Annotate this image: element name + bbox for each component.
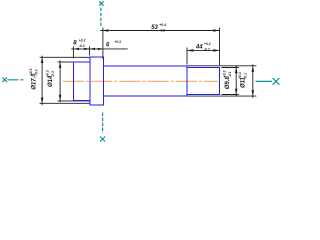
svg-text:+0.3: +0.3 — [46, 70, 50, 77]
svg-text:+0.4: +0.4 — [159, 23, 166, 27]
svg-text:+0.3: +0.3 — [29, 68, 33, 75]
svg-text:-0.2: -0.2 — [79, 44, 85, 48]
svg-text:+0.3: +0.3 — [114, 40, 121, 44]
svg-text:44: 44 — [195, 44, 203, 50]
svg-text:-0.2: -0.2 — [159, 29, 165, 33]
svg-text:-0.1: -0.1 — [228, 71, 232, 77]
svg-text:53: 53 — [151, 25, 158, 31]
svg-text:-0.2: -0.2 — [204, 48, 210, 52]
svg-text:-0.3: -0.3 — [51, 71, 55, 77]
svg-text:+0.2: +0.2 — [204, 42, 211, 46]
svg-text:+0.3: +0.3 — [223, 70, 227, 77]
svg-text:-0.1: -0.1 — [244, 73, 248, 79]
svg-text:+0.2: +0.2 — [79, 39, 86, 43]
svg-text:+0.3: +0.3 — [238, 72, 242, 79]
svg-text:-0.3: -0.3 — [35, 69, 39, 75]
